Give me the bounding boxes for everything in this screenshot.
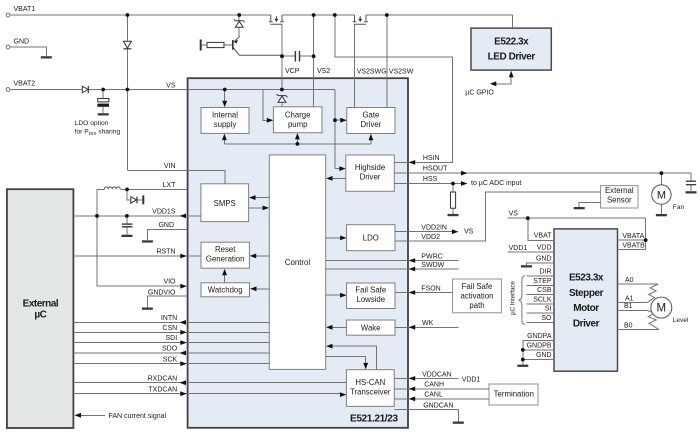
svg-text:LDO option: LDO option — [75, 120, 109, 127]
svg-text:HS-CAN: HS-CAN — [355, 378, 385, 387]
svg-text:SI: SI — [545, 306, 552, 313]
svg-text:VS: VS — [509, 211, 519, 218]
svg-text:LDO: LDO — [363, 234, 379, 243]
svg-text:VBAT1: VBAT1 — [14, 6, 36, 13]
svg-text:M: M — [657, 189, 666, 201]
svg-text:GND: GND — [14, 39, 30, 46]
svg-text:FAN current signal: FAN current signal — [109, 413, 167, 420]
svg-text:VIO: VIO — [163, 279, 176, 286]
svg-text:supply: supply — [214, 120, 237, 129]
svg-text:HSS: HSS — [423, 176, 438, 183]
svg-text:SDO: SDO — [162, 346, 178, 353]
svg-text:VDD1: VDD1 — [509, 245, 528, 252]
svg-text:VBATA: VBATA — [622, 233, 644, 240]
svg-text:GND: GND — [536, 255, 552, 262]
svg-text:Driver: Driver — [573, 318, 600, 329]
svg-text:GND: GND — [536, 352, 552, 359]
svg-text:VS2SWG: VS2SWG — [357, 69, 387, 76]
svg-text:Motor: Motor — [573, 303, 599, 314]
svg-text:TXDCAN: TXDCAN — [148, 386, 177, 393]
svg-text:FSON: FSON — [421, 285, 440, 292]
svg-text:CSN: CSN — [162, 325, 177, 332]
svg-text:STEP: STEP — [533, 278, 552, 285]
svg-text:GND: GND — [158, 222, 174, 229]
svg-text:External: External — [605, 186, 634, 195]
svg-text:Fail Safe: Fail Safe — [355, 286, 386, 295]
svg-text:VDD: VDD — [537, 244, 552, 251]
svg-text:A1: A1 — [625, 295, 634, 302]
svg-text:Internal: Internal — [212, 110, 238, 119]
svg-text:LXT: LXT — [163, 182, 177, 189]
svg-text:µC Interface: µC Interface — [510, 281, 517, 315]
svg-text:RSTN: RSTN — [156, 249, 175, 256]
svg-text:Lowside: Lowside — [356, 295, 385, 304]
svg-text:VS: VS — [464, 228, 474, 235]
svg-text:WK: WK — [422, 320, 434, 327]
svg-text:Generation: Generation — [206, 255, 245, 264]
svg-text:VS: VS — [166, 83, 176, 90]
svg-text:Termination: Termination — [494, 389, 534, 398]
svg-text:A0: A0 — [625, 277, 634, 284]
svg-text:Gate: Gate — [362, 110, 379, 119]
svg-text:Driver: Driver — [360, 173, 381, 182]
svg-text:Highside: Highside — [355, 163, 385, 172]
svg-text:VDD1: VDD1 — [462, 376, 481, 383]
svg-text:VDD2: VDD2 — [421, 234, 440, 241]
svg-text:GNDPA: GNDPA — [527, 333, 552, 340]
svg-text:HSOUT: HSOUT — [423, 166, 448, 173]
svg-text:Sensor: Sensor — [607, 195, 632, 204]
svg-text:PWRC: PWRC — [421, 253, 442, 260]
svg-text:VDD1S: VDD1S — [152, 208, 176, 215]
svg-text:LED Driver: LED Driver — [488, 51, 536, 62]
svg-text:INTN: INTN — [161, 315, 177, 322]
svg-text:DIR: DIR — [539, 269, 551, 276]
svg-text:VDDCAN: VDDCAN — [422, 371, 452, 378]
svg-text:Wake: Wake — [361, 323, 381, 332]
svg-text:VDD2IN: VDD2IN — [421, 225, 447, 232]
svg-text:Fail Safe: Fail Safe — [462, 282, 493, 291]
svg-text:VS2: VS2 — [317, 68, 330, 75]
svg-text:SO: SO — [541, 315, 552, 322]
svg-text:Transceiver: Transceiver — [350, 387, 391, 396]
svg-text:GNDCAN: GNDCAN — [423, 403, 453, 410]
svg-text:HSIN: HSIN — [423, 155, 440, 162]
svg-text:Driver: Driver — [361, 120, 382, 129]
svg-text:SDI: SDI — [166, 335, 178, 342]
svg-text:for PDIS sharing: for PDIS sharing — [75, 129, 121, 137]
svg-text:GNDVIO: GNDVIO — [148, 289, 176, 296]
svg-text:E521.21/23: E521.21/23 — [350, 413, 398, 424]
svg-text:Reset: Reset — [215, 245, 236, 254]
svg-text:Watchdog: Watchdog — [208, 286, 243, 295]
svg-text:activation: activation — [461, 292, 494, 301]
svg-text:SMPS: SMPS — [214, 199, 236, 208]
svg-text:SWDW: SWDW — [421, 262, 444, 269]
svg-text:Stepper: Stepper — [569, 288, 604, 299]
svg-text:Level: Level — [673, 317, 689, 324]
svg-text:CANH: CANH — [424, 382, 444, 389]
svg-text:to µC ADC input: to µC ADC input — [471, 180, 521, 187]
svg-text:SCLK: SCLK — [533, 297, 552, 304]
svg-text:VBATB: VBATB — [622, 242, 645, 249]
svg-text:VS2SW: VS2SW — [389, 69, 414, 76]
svg-text:External: External — [23, 298, 59, 309]
svg-text:GNDPB: GNDPB — [527, 342, 552, 349]
svg-text:VCP: VCP — [285, 68, 300, 75]
svg-text:E522.3x: E522.3x — [494, 37, 529, 48]
svg-text:CANL: CANL — [424, 392, 443, 399]
svg-text:µC GPIO: µC GPIO — [465, 89, 494, 96]
svg-text:µC: µC — [34, 309, 46, 320]
svg-text:B0: B0 — [624, 322, 633, 329]
svg-text:VBAT2: VBAT2 — [14, 81, 36, 88]
svg-text:CSB: CSB — [537, 287, 552, 294]
svg-text:B1: B1 — [624, 303, 633, 310]
svg-text:pump: pump — [288, 120, 308, 129]
svg-text:Charge: Charge — [285, 110, 311, 119]
svg-text:Control: Control — [285, 258, 310, 267]
svg-text:path: path — [469, 301, 484, 310]
svg-text:VBAT: VBAT — [534, 233, 552, 240]
svg-text:VIN: VIN — [164, 163, 176, 170]
svg-text:Fan: Fan — [673, 204, 685, 211]
svg-text:M: M — [657, 303, 667, 315]
svg-text:SCK: SCK — [163, 356, 178, 363]
svg-text:E523.3x: E523.3x — [569, 273, 604, 284]
svg-text:RXDCAN: RXDCAN — [148, 375, 178, 382]
